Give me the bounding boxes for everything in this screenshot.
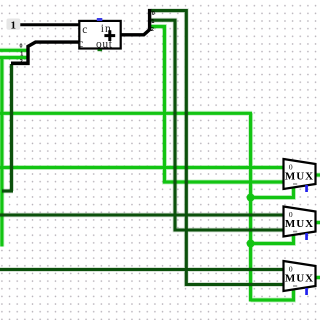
svg-text:1: 1	[20, 52, 23, 58]
svg-text:MUX: MUX	[285, 218, 314, 230]
svg-text:1: 1	[11, 19, 17, 31]
svg-text:2: 2	[20, 59, 23, 65]
svg-text:1: 1	[151, 19, 154, 25]
svg-text:MUX: MUX	[285, 171, 314, 183]
svg-text:c: c	[82, 24, 87, 36]
svg-text:MUX: MUX	[285, 273, 314, 285]
svg-text:2: 2	[151, 27, 154, 33]
svg-text:0: 0	[289, 265, 293, 274]
svg-text:c: c	[78, 38, 83, 50]
svg-text:0: 0	[289, 163, 293, 172]
svg-text:0: 0	[152, 11, 155, 17]
svg-text:0: 0	[289, 210, 293, 219]
svg-text:0: 0	[20, 44, 23, 50]
